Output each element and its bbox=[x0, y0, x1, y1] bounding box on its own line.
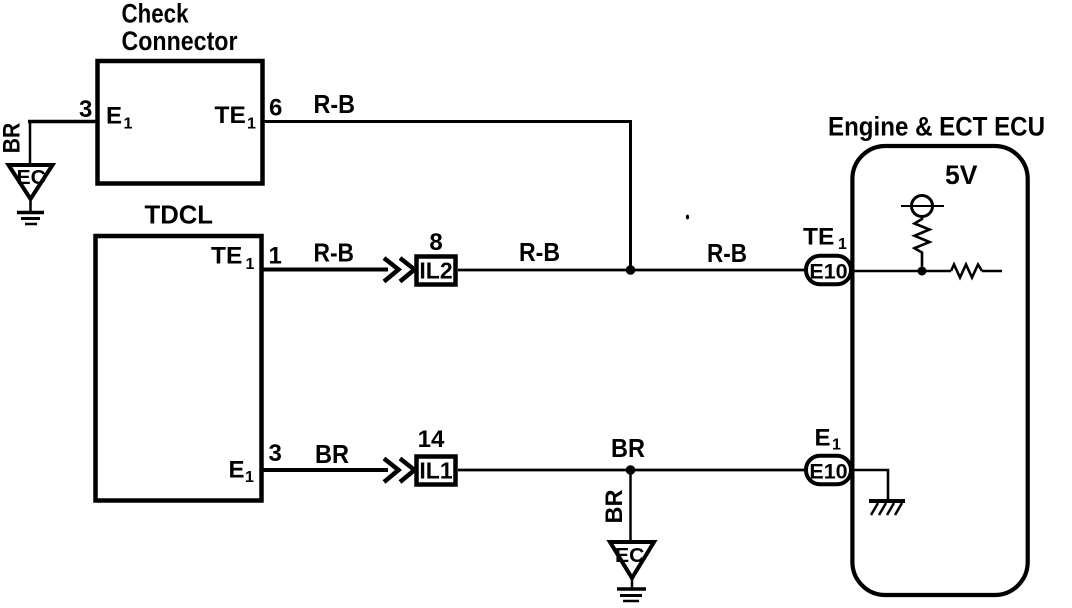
svg-text:IL1: IL1 bbox=[419, 458, 452, 484]
connector IL2 bbox=[417, 257, 456, 285]
node A junction bbox=[626, 265, 636, 275]
inline connector chevrons (IL2 side) bbox=[384, 258, 415, 282]
label E1 (ECU terminal) bbox=[815, 424, 842, 453]
svg-text:5V: 5V bbox=[945, 160, 978, 190]
svg-text:3: 3 bbox=[269, 440, 282, 467]
connector terminal E10 (E1) bbox=[806, 456, 851, 485]
svg-text:R-B: R-B bbox=[707, 240, 747, 268]
resistor (pull-up, vertical) bbox=[915, 217, 930, 267]
svg-text:R-B: R-B bbox=[314, 239, 355, 267]
resistor (series, horizontal) bbox=[951, 265, 982, 278]
svg-text:14: 14 bbox=[418, 426, 445, 453]
label TE1 (ECU terminal) bbox=[803, 223, 847, 253]
svg-text:8: 8 bbox=[429, 229, 442, 256]
ECU box: Engine & ECT ECU bbox=[852, 146, 1027, 595]
wire: TDCL E1 pin 3 to chevrons bbox=[262, 468, 388, 472]
svg-text:Check: Check bbox=[122, 0, 189, 29]
svg-text:E10: E10 bbox=[809, 460, 847, 484]
svg-text:1: 1 bbox=[245, 469, 254, 486]
svg-text:BR: BR bbox=[315, 441, 349, 469]
pin E1 label (TDCL) bbox=[229, 456, 255, 486]
svg-text:1: 1 bbox=[124, 116, 133, 133]
chassis ground (ECU internal) bbox=[869, 501, 905, 515]
power source symbol (5V supply) bbox=[901, 196, 944, 217]
label: Check Connector title bbox=[122, 0, 238, 56]
svg-text:1: 1 bbox=[247, 115, 256, 132]
wire: node B to EC ground bbox=[629, 470, 632, 542]
svg-text:Engine & ECT ECU: Engine & ECT ECU bbox=[828, 112, 1045, 142]
pin TE1 label (TDCL) bbox=[211, 243, 255, 273]
svg-text:IL2: IL2 bbox=[419, 258, 452, 284]
wire: ECU internal TE1 node bbox=[852, 270, 951, 273]
svg-text:1: 1 bbox=[838, 236, 847, 253]
svg-text:TE: TE bbox=[215, 102, 246, 129]
inline connector chevrons (IL1 side) bbox=[384, 459, 415, 483]
wire: IL1 to ECU E1 (E10) bbox=[458, 469, 806, 472]
node: pull-up junction bbox=[918, 267, 927, 276]
svg-text:EC: EC bbox=[17, 167, 47, 189]
svg-text:BR: BR bbox=[601, 490, 628, 524]
svg-text:E10: E10 bbox=[809, 260, 847, 284]
svg-text:3: 3 bbox=[79, 96, 92, 123]
wire: TDCL TE1 pin 1 to chevrons bbox=[262, 268, 388, 272]
connector terminal E10 (TE1) bbox=[806, 256, 851, 285]
svg-text:R-B: R-B bbox=[519, 239, 560, 267]
node B junction bbox=[626, 465, 636, 475]
pin TE1 label (Check Connector) bbox=[215, 102, 257, 133]
svg-text:E: E bbox=[106, 103, 122, 130]
svg-text:R-B: R-B bbox=[314, 91, 356, 119]
ground EC (node B) bbox=[610, 542, 654, 601]
svg-text:TE: TE bbox=[803, 223, 834, 250]
svg-text:E: E bbox=[815, 424, 831, 451]
connector box: TDCL bbox=[96, 236, 262, 501]
wire: after series resistor bbox=[982, 270, 1002, 273]
svg-text:TE: TE bbox=[211, 243, 242, 270]
svg-text:1: 1 bbox=[832, 437, 841, 454]
wire: Check Connector E1 to EC ground bbox=[28, 122, 97, 167]
svg-text:TDCL: TDCL bbox=[145, 200, 214, 230]
wire: IL2 to ECU TE1 (E10) bbox=[458, 269, 806, 272]
svg-text:E: E bbox=[229, 456, 245, 483]
svg-text:6: 6 bbox=[269, 95, 282, 122]
svg-text:Connector: Connector bbox=[122, 26, 238, 56]
wire: ECU internal E1 to chassis ground bbox=[852, 470, 888, 500]
svg-text:1: 1 bbox=[246, 256, 255, 273]
wire: Check Connector TE1 pin 6 to node A bbox=[263, 122, 633, 271]
pin E1 label (Check Connector) bbox=[106, 103, 133, 133]
ground EC (Check Connector E1) bbox=[9, 165, 53, 224]
svg-text:BR: BR bbox=[611, 435, 645, 463]
connector box: Check Connector bbox=[98, 61, 263, 184]
svg-text:BR: BR bbox=[0, 123, 26, 154]
connector IL1 bbox=[417, 457, 456, 485]
svg-text:EC: EC bbox=[615, 545, 645, 567]
svg-text:1: 1 bbox=[269, 243, 282, 270]
